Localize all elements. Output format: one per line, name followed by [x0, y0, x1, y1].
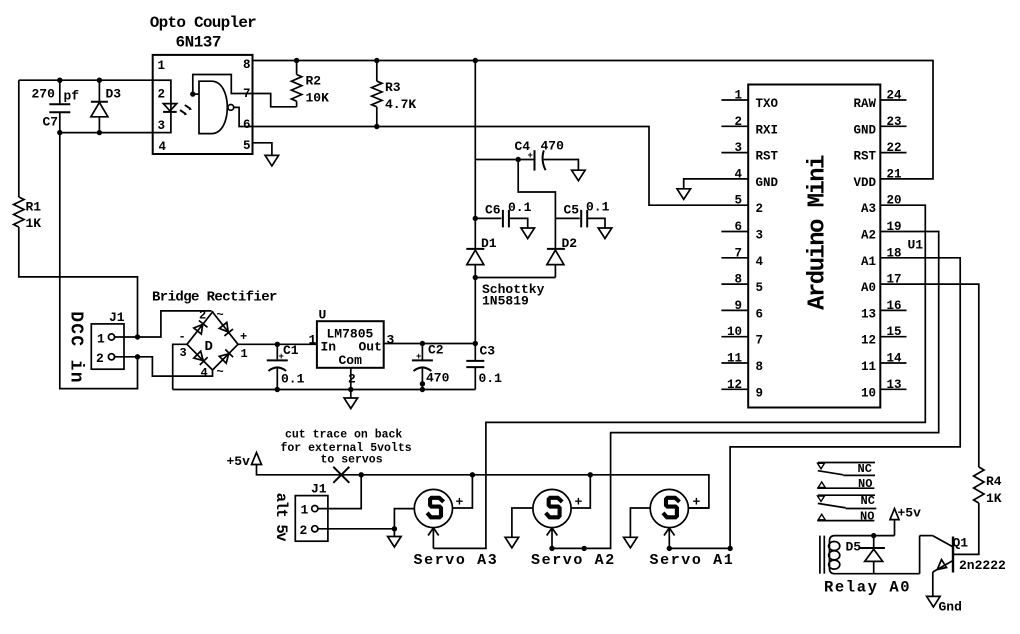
svg-text:+: +: [279, 352, 284, 362]
svg-text:GND: GND: [756, 176, 779, 190]
svg-text:1: 1: [301, 503, 309, 518]
junction dot com: [348, 387, 353, 392]
svg-text:R4: R4: [986, 474, 1002, 489]
wire A1 to servo A1: [669, 258, 960, 549]
svg-text:270: 270: [32, 87, 56, 102]
svg-text:In: In: [321, 340, 337, 355]
alt J1 pin 1: [301, 503, 318, 518]
svg-text:C6: C6: [485, 203, 501, 218]
capacitor C3: [466, 344, 502, 390]
svg-text:J1: J1: [311, 482, 327, 497]
svg-text:3: 3: [158, 119, 166, 133]
servo A1 signal arrow: [664, 528, 675, 549]
svg-text:A1: A1: [861, 255, 876, 269]
svg-text:0.1: 0.1: [586, 200, 610, 215]
wire ground rail: [173, 389, 476, 391]
wire opto bubble to pin 6: [234, 107, 253, 126]
wire +5v top rail (opto pin8 to VDD): [253, 61, 934, 179]
arduino right pin 23 GND: [853, 115, 906, 138]
junction dot R3 bottom: [374, 124, 379, 129]
junction dot C1 top: [275, 342, 280, 347]
junction dot C7 top: [57, 78, 62, 83]
svg-text:D3: D3: [106, 87, 122, 102]
svg-text:R1: R1: [26, 200, 42, 215]
wire VDD rail down (C4 column): [474, 61, 476, 249]
junction dot J1 pin1: [135, 334, 140, 339]
arduino left pin 7 4: [721, 246, 763, 269]
svg-text:~: ~: [217, 365, 224, 379]
servo A2 label: [531, 552, 616, 569]
arduino right pin 19 A2: [861, 220, 902, 243]
bridge diode bottom-right: [219, 349, 233, 363]
svg-text:3: 3: [756, 229, 764, 243]
svg-text:8: 8: [756, 360, 764, 374]
svg-text:D2: D2: [562, 236, 578, 251]
junction dot R3 top: [374, 58, 379, 63]
svg-text:C2: C2: [428, 343, 444, 358]
bridge diode top-right: [219, 322, 233, 336]
regulator U LM7805: [309, 308, 395, 387]
opto pin 8 label: [243, 58, 251, 72]
junction dot D5 top: [871, 533, 876, 538]
svg-text:DCC in: DCC in: [66, 311, 86, 384]
servo A3 signal arrow: [428, 528, 439, 549]
svg-text:A0: A0: [861, 281, 876, 295]
J1 pin 1: [97, 332, 115, 347]
servo A2 symbol: [533, 489, 571, 527]
svg-text:1: 1: [158, 59, 166, 73]
junction dot R2 top: [294, 58, 299, 63]
opto pin 5 label: [243, 139, 251, 153]
svg-text:A2: A2: [861, 229, 876, 243]
wire D1 node down to LM7805 out: [474, 278, 476, 344]
bridge rectifier D diamond: [187, 311, 238, 370]
svg-text:6N137: 6N137: [176, 34, 222, 52]
svg-text:4: 4: [756, 255, 764, 269]
svg-text:2: 2: [199, 309, 206, 323]
svg-text:RAW: RAW: [853, 97, 876, 111]
svg-text:1: 1: [309, 333, 317, 348]
junction dot servo A3 gnd: [392, 526, 397, 531]
J1 pin 2: [96, 351, 115, 366]
servo A1 label: [650, 552, 735, 569]
resistor R3: [372, 61, 417, 127]
wire riser to alt J1 pin1: [318, 475, 361, 509]
arduino mini U1 outline: [748, 85, 880, 408]
diode D1: [466, 236, 497, 278]
svg-text:+: +: [528, 151, 533, 161]
servo A2 signal arrow: [547, 528, 558, 549]
wire A2 to servo A2: [552, 232, 939, 549]
wire opto pin3 row: [60, 132, 153, 134]
arduino left pin 8 5: [721, 273, 763, 296]
svg-text:Arduino Mini: Arduino Mini: [805, 155, 832, 310]
wire C4 node to C5 node: [518, 160, 555, 219]
arduino right pin 24 RAW: [853, 89, 906, 112]
junction dot LM out / D1 column: [473, 341, 478, 346]
opto NAND output bubble: [228, 105, 234, 111]
relay core bars: [820, 536, 824, 574]
alt 5v label: [272, 493, 290, 543]
arduino right pin 16 13: [861, 299, 907, 322]
svg-text:TXO: TXO: [756, 97, 779, 111]
arduino right pin 18 A1: [861, 246, 902, 269]
wire left input rail down to R1: [18, 80, 20, 197]
relay contact NO 1: [817, 477, 874, 491]
svg-text:13: 13: [861, 307, 876, 321]
ground at servo A3: [388, 537, 402, 548]
ground at C4: [572, 170, 586, 181]
junction dot C1 bottom: [275, 387, 280, 392]
wire bridge plus to LM7805 in: [238, 343, 317, 345]
arduino right pin 17 A0: [861, 273, 902, 296]
svg-text:2: 2: [756, 202, 764, 216]
arduino left pin 10 7: [721, 325, 763, 348]
wire A3 to servo A3: [433, 205, 925, 548]
wire relay to Q1 collector: [919, 536, 921, 574]
svg-text:D5: D5: [846, 540, 862, 555]
bridge terminal labels: [179, 308, 248, 380]
junction dot alt J1 riser: [359, 472, 364, 477]
wire gnd stub: [393, 529, 395, 537]
svg-text:Servo A1: Servo A1: [650, 552, 735, 569]
servo A3 symbol: [414, 489, 452, 527]
svg-text:2: 2: [348, 372, 356, 387]
svg-text:10: 10: [861, 386, 876, 400]
+5v arrow left: [227, 453, 262, 470]
svg-text:+: +: [240, 330, 247, 344]
arduino right pin 15 12: [861, 325, 907, 348]
svg-text:6: 6: [756, 307, 764, 321]
svg-text:3: 3: [387, 333, 395, 348]
wire servo A3 left: [394, 509, 414, 529]
relay coil outline: [830, 536, 920, 574]
svg-text:Gnd: Gnd: [939, 600, 962, 615]
svg-text:4: 4: [201, 366, 208, 380]
svg-text:D: D: [205, 339, 213, 355]
arduino left pin 6 3: [721, 220, 763, 243]
ground Gnd at Q1: [927, 596, 962, 614]
svg-text:RXI: RXI: [756, 123, 779, 137]
+5v arrow at relay: [890, 506, 921, 536]
junction dot C7 bottom: [57, 130, 62, 135]
arduino left pin 12 9: [721, 378, 763, 401]
opto LED emission arrows: [180, 105, 192, 115]
svg-text:Bridge Rectifier: Bridge Rectifier: [152, 290, 277, 306]
bridge diode top-left: [194, 321, 208, 335]
svg-text:R2: R2: [306, 74, 322, 89]
wire +5v rail: [257, 465, 709, 509]
svg-text:C7: C7: [43, 115, 59, 130]
svg-text:to servos: to servos: [321, 454, 383, 467]
svg-text:1N5819: 1N5819: [482, 294, 529, 309]
arduino left pin 11 8: [721, 352, 763, 375]
wire J1 pin1 to bridge in 2: [115, 311, 212, 337]
cut trace X mark: [333, 467, 349, 483]
arduino right pin 13 10: [861, 378, 907, 401]
opto pin 7 label: [243, 87, 251, 101]
svg-text:J1: J1: [109, 310, 125, 325]
svg-text:2n2222: 2n2222: [959, 558, 1006, 573]
junction dot servo A2 plus: [588, 472, 593, 477]
diode D3: [91, 80, 121, 132]
ground at LM7805 com: [344, 398, 358, 409]
svg-text:470: 470: [426, 371, 450, 386]
svg-text:10K: 10K: [306, 91, 330, 106]
svg-text:+: +: [416, 352, 421, 362]
arduino right pin 20 A3: [861, 194, 902, 217]
ground at C6: [521, 228, 535, 239]
bridge diode bottom-left: [194, 351, 208, 365]
svg-text:0.1: 0.1: [508, 200, 532, 215]
junction dot D3 bottom: [97, 130, 102, 135]
relay contact NC 1: [818, 462, 876, 476]
svg-text:NC: NC: [861, 494, 875, 508]
ground at arduino pin4: [677, 189, 691, 200]
svg-text:2: 2: [96, 351, 104, 366]
wire Q1 emitter to gnd: [932, 572, 934, 596]
svg-text:NC: NC: [858, 462, 872, 476]
opto pin 4 label: [159, 140, 167, 154]
ground at C5: [598, 228, 612, 239]
wire A0 to R4: [880, 284, 979, 467]
relay coil loops: [829, 542, 840, 570]
junction dot servo A2 sig: [549, 546, 587, 551]
connector J1 (DCC) outline: [91, 310, 125, 369]
svg-text:6: 6: [243, 118, 251, 132]
svg-text:12: 12: [861, 334, 876, 348]
svg-text:C5: C5: [564, 203, 580, 218]
DCC in label: [66, 311, 86, 384]
wire servo A3 plus to rail: [453, 475, 473, 508]
transistor Q1 2n2222: [920, 536, 1006, 574]
svg-text:NO: NO: [858, 477, 872, 491]
connector J1 alt 5v outline: [295, 482, 328, 542]
junction dot C2 top: [420, 341, 425, 346]
wire opto pin5 to ground: [253, 143, 272, 156]
junction dot D1 bottom: [473, 275, 478, 280]
svg-text:1: 1: [97, 332, 105, 347]
svg-text:C3: C3: [480, 344, 496, 359]
svg-text:cut trace on back: cut trace on back: [285, 429, 402, 442]
svg-text:RST: RST: [853, 150, 876, 164]
junction dot servo A1 sig: [667, 546, 733, 551]
wire LM7805 out: [384, 343, 476, 345]
ground at servo A1: [624, 537, 638, 548]
svg-text:Com: Com: [339, 353, 363, 368]
capacitor C5: [555, 200, 609, 229]
svg-text:+5v: +5v: [227, 454, 251, 469]
svg-text:RST: RST: [756, 150, 779, 164]
alt J1 pin 2: [300, 523, 318, 538]
servo A3 plus: [456, 495, 464, 510]
svg-text:3: 3: [180, 346, 187, 360]
wire DCC input top rail to opto pin 2: [19, 79, 153, 81]
capacitor C7: [32, 80, 80, 132]
svg-text:Q1: Q1: [953, 536, 969, 551]
opto LED sub-box: [153, 80, 171, 132]
svg-text:0.1: 0.1: [479, 371, 503, 386]
svg-text:0.1: 0.1: [281, 372, 305, 387]
svg-text:11: 11: [861, 360, 876, 374]
svg-text:4.7K: 4.7K: [385, 97, 416, 112]
svg-text:1K: 1K: [986, 491, 1002, 506]
svg-text:GND: GND: [853, 123, 876, 137]
resistor R4: [974, 467, 1002, 506]
svg-text:5: 5: [756, 281, 764, 295]
diode D2: [547, 218, 577, 277]
bridge rectifier label: [152, 290, 277, 306]
servo A3 label: [414, 552, 499, 569]
svg-text:2: 2: [300, 523, 308, 538]
U1 label: [908, 238, 924, 253]
svg-text:9: 9: [756, 386, 764, 400]
wire servo A2 left gnd: [512, 508, 533, 537]
svg-text:alt 5v: alt 5v: [272, 493, 290, 543]
relay contact NC 2: [818, 494, 877, 509]
junction dot servo A3 plus: [470, 472, 475, 477]
junction dot C4 branch: [516, 157, 521, 162]
junction dot C4 rail top: [473, 58, 478, 63]
wire J1 pin2 to bridge in 4: [115, 357, 213, 376]
capacitor C1: [267, 343, 305, 390]
svg-text:Servo A2: Servo A2: [531, 552, 616, 569]
wire R1 to DCC J1 pin 1: [19, 227, 138, 337]
arduino left pin 9 6: [721, 299, 763, 322]
wire LM7805 com to ground: [350, 368, 352, 398]
svg-text:7: 7: [756, 334, 764, 348]
wire servo A1 left gnd: [630, 508, 650, 537]
arduino right pin 21 VDD: [853, 167, 901, 190]
schottky label: [482, 282, 545, 309]
opto pin 2 label: [158, 88, 166, 102]
arduino left pin 4 GND: [734, 167, 778, 190]
opto pin 3 label: [158, 119, 166, 133]
junction dot J1 pin2: [135, 354, 140, 359]
capacitor C6: [475, 200, 531, 228]
svg-text:+5v: +5v: [898, 506, 922, 521]
ground at servo A2: [505, 537, 518, 548]
svg-text:pf: pf: [64, 89, 80, 104]
arduino left pin 5 2: [734, 194, 763, 217]
capacitor C2: [412, 343, 450, 390]
wire R4 to Q1 base: [954, 503, 979, 554]
opto LED: [163, 104, 177, 112]
wire D1-D2 bottoms: [475, 277, 555, 279]
wire bridge minus to ground rail: [173, 344, 187, 389]
svg-text:Opto Coupler: Opto Coupler: [150, 14, 256, 32]
svg-text:1K: 1K: [26, 216, 42, 231]
svg-text:D1: D1: [481, 236, 497, 251]
arduino left pin 3 RST: [721, 141, 778, 164]
junction dot C6 branch: [473, 216, 478, 221]
opto pin 6 label: [243, 118, 251, 132]
servo A1 plus: [693, 495, 701, 510]
svg-text:U: U: [319, 308, 327, 323]
svg-text:U1: U1: [908, 238, 924, 253]
svg-text:2: 2: [158, 88, 166, 102]
wire C7 bottom rail down to DCC J1 pin 2: [60, 133, 138, 389]
wire alt J1 pin2 to servo A3 gnd: [318, 528, 394, 530]
opto gate input node dot: [190, 91, 195, 96]
svg-text:21: 21: [887, 167, 902, 181]
svg-text:NO: NO: [860, 510, 874, 524]
junction dot C2 bottom: [420, 381, 425, 392]
svg-text:Servo A3: Servo A3: [414, 552, 499, 569]
arduino right pin 14 11: [861, 352, 907, 375]
svg-text:R3: R3: [385, 80, 401, 95]
arduino mini vertical label: [805, 155, 832, 310]
cut trace note: [281, 429, 412, 467]
svg-text:470: 470: [541, 139, 565, 154]
servo A1 symbol: [650, 489, 688, 527]
diode D5: [846, 536, 885, 574]
svg-text:~: ~: [217, 308, 224, 322]
svg-text:4: 4: [159, 140, 167, 154]
svg-text:VDD: VDD: [853, 176, 876, 190]
svg-text:Out: Out: [359, 340, 382, 355]
arduino left pin 2 RXI: [721, 115, 778, 138]
arduino left pin 1 TXO: [721, 89, 778, 112]
junction dot D3 top: [97, 78, 102, 83]
wire servo A2 plus to rail: [571, 475, 590, 508]
wire opto gate input to pin 7: [193, 75, 253, 95]
ground at opto pin5: [265, 155, 279, 166]
svg-text:1: 1: [241, 347, 248, 361]
opto NAND gate: [199, 81, 227, 133]
wire opto pin7 to R2 bottom: [253, 94, 297, 107]
relay A0 label: [824, 578, 911, 596]
wire arduino GND pin4: [684, 179, 749, 189]
wire opto pin6 rail to arduino pin 5: [253, 127, 749, 206]
svg-text:A3: A3: [861, 202, 876, 216]
svg-text:8: 8: [243, 58, 251, 72]
svg-text:Relay A0: Relay A0: [824, 578, 911, 596]
capacitor C4: [515, 139, 579, 171]
svg-text:5: 5: [734, 194, 742, 208]
svg-text:-: -: [179, 330, 186, 344]
resistor R2: [291, 61, 329, 107]
arduino right pin 22 RST: [853, 141, 906, 164]
svg-text:C1: C1: [283, 343, 299, 358]
wire C4 branch: [475, 159, 534, 161]
relay contact NO 2: [817, 510, 874, 524]
opto coupler 6N137 outline: [150, 14, 256, 154]
wire servo A1 plus stub: [688, 507, 709, 509]
servo A2 plus: [575, 495, 583, 510]
opto pin 1 label: [158, 59, 166, 73]
svg-text:5: 5: [243, 139, 251, 153]
resistor R1: [14, 197, 42, 231]
